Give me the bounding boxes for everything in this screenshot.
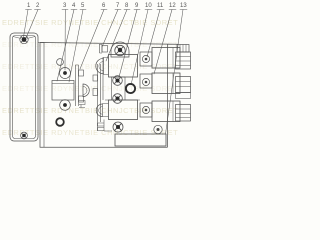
- valve body 3 dome: [96, 104, 102, 117]
- leader 11: [147, 10, 160, 58]
- coil pad 3 screw: [142, 106, 149, 113]
- cover plate inner: [13, 36, 36, 139]
- cover top screw cross: [21, 37, 27, 43]
- connector 1 slats: [176, 57, 191, 66]
- connector 2 lower band: [176, 93, 191, 99]
- screw below block center: [63, 103, 67, 107]
- callout number 11: [157, 3, 164, 9]
- clamp assembly top: [100, 44, 103, 53]
- bottom bracket tabs: [98, 120, 113, 132]
- main plate outline: [40, 43, 178, 148]
- leader 9: [119, 10, 137, 78]
- callout number 13: [180, 3, 187, 9]
- coil 3 divider: [172, 101, 174, 122]
- connector 1 top fins: [180, 45, 186, 53]
- callout number 2: [36, 3, 40, 9]
- thick ring 10: [126, 84, 135, 93]
- bracket tab bottom: [79, 96, 84, 102]
- screw 9b center: [116, 97, 120, 101]
- screw 3 target: [60, 68, 71, 79]
- leader 1: [24, 10, 29, 38]
- coil 1: [152, 48, 180, 69]
- tick 6: [101, 9, 107, 11]
- callout number 12: [169, 3, 176, 9]
- leader 5: [69, 10, 83, 83]
- tick 1: [26, 9, 32, 11]
- leader 6: [80, 10, 104, 70]
- leader 13: [166, 10, 184, 135]
- bottom right screw center: [157, 128, 160, 131]
- svg-text:12: 12: [169, 3, 176, 9]
- screw 9a: [113, 76, 123, 86]
- coil pad 3 screw center: [145, 109, 148, 112]
- screw 9a center: [116, 79, 120, 83]
- tick 11: [157, 9, 164, 11]
- left block: [52, 81, 74, 101]
- left dome inner arc: [83, 87, 87, 95]
- valve body 1 dome: [96, 58, 104, 73]
- valve body 1 dome inner: [99, 62, 104, 71]
- tick 9: [134, 9, 140, 11]
- connector 2: [176, 77, 191, 93]
- coil pad 2 screw: [142, 78, 149, 85]
- screw 3 center: [63, 71, 67, 75]
- valve body 3: [109, 100, 138, 120]
- cover top screw center: [22, 37, 27, 42]
- svg-text:10: 10: [145, 3, 152, 9]
- coil pad 1 screw: [142, 55, 149, 62]
- leader 3: [64, 10, 66, 71]
- screw 7 cross: [116, 46, 123, 53]
- svg-text:EDRETTSIE RDYNETBIE CHNJCTBIE: EDRETTSIE RDYNETBIE CHNJCTBIE SDRET: [2, 18, 178, 27]
- manifold tab lower: [93, 89, 98, 96]
- tick 12: [169, 9, 176, 11]
- valve body 1 collar: [104, 58, 109, 75]
- left dome cap: [83, 84, 89, 97]
- manifold tab upper: [93, 75, 98, 81]
- tick 7: [115, 9, 121, 11]
- leader 7: [102, 10, 118, 48]
- hole circle A: [57, 59, 64, 66]
- callout number 4: [72, 3, 76, 9]
- bracket tab top: [79, 70, 84, 76]
- callout number 5: [81, 3, 85, 9]
- screw 7: [115, 45, 125, 55]
- callout number 6: [102, 3, 106, 9]
- callout number 10: [145, 3, 152, 9]
- leader 2: [26, 10, 38, 39]
- cover bottom screw cross: [22, 133, 27, 138]
- leader 4: [57, 10, 74, 82]
- connector 3: [176, 105, 191, 122]
- small clamp by bottom screw: [79, 101, 85, 108]
- callout number 1: [27, 3, 31, 9]
- bottom screw: [113, 122, 123, 132]
- connector 2 slats: [176, 82, 191, 87]
- screw 9a cross: [114, 77, 121, 84]
- cover bottom screw center: [22, 134, 26, 138]
- valve body 1: [109, 55, 138, 78]
- tick 8: [124, 9, 130, 11]
- valve body 3 collar: [103, 104, 109, 117]
- valve body 3 dome inner: [99, 107, 103, 115]
- coil pad 2 screw center: [145, 81, 148, 84]
- bottom screw center: [116, 125, 120, 129]
- tick 10: [145, 9, 152, 11]
- cover plate countersink left line: [13, 37, 21, 39]
- bottom bar: [115, 134, 166, 146]
- svg-text:13: 13: [180, 3, 187, 9]
- bottom right screw: [154, 125, 162, 133]
- cover link arm: [38, 42, 44, 44]
- leader 10: [131, 10, 148, 86]
- connector 1: [176, 52, 191, 69]
- cover top screw: [20, 35, 28, 43]
- coil 3: [152, 101, 180, 122]
- screw below block: [60, 100, 71, 111]
- coil pad 1: [140, 52, 152, 66]
- top pad dome: [111, 42, 129, 57]
- callout number 8: [125, 3, 129, 9]
- screw 7 center: [118, 48, 122, 52]
- cover bottom screw: [21, 132, 28, 139]
- tick 13: [180, 9, 187, 11]
- screw 9b cross: [114, 95, 121, 102]
- callout number 3: [63, 3, 67, 9]
- clamp square: [102, 46, 108, 53]
- connector 3 slats: [176, 109, 191, 118]
- svg-text:11: 11: [157, 3, 164, 9]
- coil pad 1 screw center: [145, 58, 148, 61]
- tick 3: [62, 9, 68, 11]
- cover plate outer: [10, 33, 38, 141]
- thick ring: [56, 118, 64, 126]
- leader 12: [154, 10, 172, 75]
- leader 8: [106, 10, 127, 62]
- tick 2: [35, 9, 41, 11]
- left block inner line: [52, 83, 74, 85]
- tick 4: [71, 9, 77, 11]
- manifold face: [98, 57, 104, 131]
- coil pad 2: [140, 74, 152, 88]
- mid pad column: [105, 77, 140, 100]
- main plate inner left edge: [43, 42, 45, 147]
- connector 1 top: [177, 45, 189, 53]
- coil pad 3: [140, 103, 152, 117]
- screw 9b: [113, 94, 123, 104]
- coil 2 divider: [172, 73, 174, 94]
- tick 5: [80, 9, 86, 11]
- coil 2: [152, 73, 180, 94]
- coil 1 divider: [172, 48, 174, 69]
- svg-text:EDRETTSIE RDYNETBIE CHNJCTBIE: EDRETTSIE RDYNETBIE CHNJCTBIE SDRET: [2, 128, 178, 137]
- callout number 9: [135, 3, 139, 9]
- bottom screw cross: [115, 124, 122, 131]
- bracket plate vertical: [76, 65, 79, 106]
- callout number 7: [116, 3, 120, 9]
- cover plate countersink right line: [27, 37, 35, 39]
